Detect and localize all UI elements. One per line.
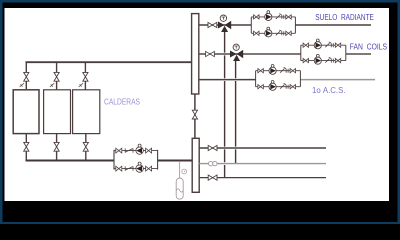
- pump P1b: [265, 30, 272, 37]
- valve bottom-left of boiler pump branch: [116, 166, 122, 171]
- wire circuit3 supply right: [300, 79, 375, 81]
- wire boiler pump branch top: [114, 150, 158, 152]
- three-way valve V2: [230, 51, 237, 58]
- wire boiler1 bottom stub: [25, 151, 27, 160]
- union group1 top: [282, 15, 284, 19]
- valve group2 top-left: [303, 43, 308, 47]
- wire pump group1 branch top: [251, 16, 295, 18]
- pump P2a: [314, 42, 321, 49]
- valve top-right of boiler pump branch: [146, 148, 152, 153]
- wire boiler3 bottom drop: [85, 134, 87, 143]
- pump group 2 right bracket: [345, 45, 347, 60]
- valve boiler3 top: [83, 72, 88, 81]
- valve group3 bottom-right: [290, 85, 295, 89]
- wire pump group3 branch top: [256, 70, 301, 72]
- pump group 3 left bracket: [255, 71, 257, 87]
- valve group1 top-right: [286, 15, 291, 19]
- return manifold: [192, 138, 199, 192]
- valve boiler1 top: [24, 72, 29, 81]
- actuator M1: [222, 19, 224, 22]
- drain cock boiler2: [50, 83, 55, 87]
- wire circuit2 supply: [199, 53, 371, 55]
- valve group2 top-right: [335, 43, 340, 47]
- union group3 top: [286, 69, 288, 73]
- wire bypass riser 1: [224, 32, 226, 178]
- wire circuit1 supply: [199, 24, 371, 26]
- pump boiler branch bottom: [136, 165, 143, 172]
- boiler B1: [13, 90, 39, 134]
- actuator M2: [235, 48, 237, 51]
- wire pump group2 branch bottom: [301, 60, 346, 62]
- valve return B: [209, 161, 213, 165]
- wire boiler1 top drop: [25, 62, 27, 72]
- drawing sheet: [5, 8, 390, 201]
- check valve group2 top: [325, 42, 331, 47]
- wire pump group1 branch bottom: [251, 32, 295, 34]
- three-way valve V1: [218, 22, 225, 29]
- valve bottom-right of boiler pump branch: [146, 166, 152, 171]
- wire boiler return left: [26, 160, 115, 162]
- gauge on expansion line: [182, 169, 187, 174]
- pump P2b: [314, 57, 321, 64]
- pump P1a: [265, 13, 272, 20]
- supply manifold: [192, 14, 199, 94]
- valve manifold connector: [192, 110, 197, 119]
- union group2 top: [331, 43, 333, 47]
- wire expansion vessel drop: [179, 161, 181, 178]
- expansion vessel: [176, 178, 183, 199]
- wire return line A: [199, 147, 326, 149]
- valve top-left of boiler pump branch: [116, 148, 122, 153]
- wire boiler2 top stub: [56, 81, 58, 90]
- valve circuit2 supply: [206, 51, 215, 56]
- boiler B3: [73, 90, 100, 134]
- valve return C: [208, 175, 217, 180]
- wire boiler1 bottom drop: [25, 134, 27, 143]
- wire boiler2 bottom drop: [56, 134, 58, 143]
- union group1 bottom: [282, 31, 284, 35]
- wire pump group3 branch bottom: [256, 86, 301, 88]
- valve group1 bottom-left: [254, 31, 259, 35]
- wire return line C: [199, 177, 326, 179]
- check valve group1 bottom: [276, 30, 282, 35]
- valve boiler2 top: [54, 72, 59, 81]
- wire boiler3 top drop: [84, 62, 86, 72]
- valve circuit1 supply: [208, 22, 217, 27]
- check valve group1 top: [276, 14, 282, 19]
- wire boiler pump branch bottom: [114, 168, 158, 170]
- wire boiler3 bottom stub: [85, 151, 87, 160]
- wire boiler supply header horizontal: [26, 61, 192, 63]
- check valve group3 bottom: [280, 83, 286, 88]
- drain cock boiler1: [20, 83, 25, 87]
- wire circuit3 supply left: [199, 79, 256, 81]
- svg-text:CALDERAS: CALDERAS: [104, 98, 140, 107]
- union group3 bottom: [286, 85, 288, 89]
- svg-text:1o A.C.S.: 1o A.C.S.: [312, 86, 346, 95]
- valve boiler3 bottom: [83, 142, 88, 151]
- wire boiler2 bottom stub: [56, 151, 58, 160]
- pump group 1 left bracket: [250, 17, 252, 33]
- valve group1 top-left: [254, 15, 259, 19]
- wire boiler1 top stub: [25, 81, 27, 90]
- boiler pump group right bracket: [157, 150, 159, 170]
- wire boiler2 top drop: [56, 62, 58, 72]
- check valve group3 top: [280, 67, 286, 72]
- union group2 bottom: [331, 59, 333, 63]
- svg-text:FAN COILS: FAN COILS: [350, 42, 387, 51]
- wire manifold connector: [194, 94, 196, 138]
- pump P3a: [269, 67, 276, 74]
- boiler pump group left bracket: [113, 150, 115, 170]
- svg-text:SUELO RADIANTE: SUELO RADIANTE: [315, 13, 374, 22]
- valve group3 bottom-left: [258, 85, 263, 89]
- wire pump group2 branch top: [301, 44, 346, 46]
- valve boiler2 bottom: [54, 142, 59, 151]
- pump group 2 left bracket: [300, 45, 302, 60]
- wire boiler return right: [158, 160, 193, 162]
- flex connector top boiler branch: [125, 148, 133, 152]
- valve boiler1 bottom: [24, 142, 29, 151]
- valve group3 top-right: [290, 69, 295, 73]
- valve group3 top-left: [258, 69, 263, 73]
- valve return A: [208, 145, 217, 150]
- wire return line B: [199, 163, 326, 165]
- pump P3b: [269, 83, 276, 90]
- pump group 3 right bracket: [299, 71, 301, 87]
- wire bypass riser 2: [235, 61, 237, 164]
- check valve group2 bottom: [325, 57, 331, 62]
- wire boiler3 top stub: [84, 81, 86, 90]
- pump group 1 right bracket: [294, 17, 296, 33]
- pump boiler branch top: [136, 147, 143, 154]
- flex connector bottom boiler branch: [125, 166, 133, 170]
- drain cock boiler3: [79, 83, 84, 87]
- valve group2 bottom-left: [303, 59, 308, 63]
- valve group2 bottom-right: [335, 59, 340, 63]
- valve group1 bottom-right: [286, 31, 291, 35]
- boiler B2: [44, 90, 71, 134]
